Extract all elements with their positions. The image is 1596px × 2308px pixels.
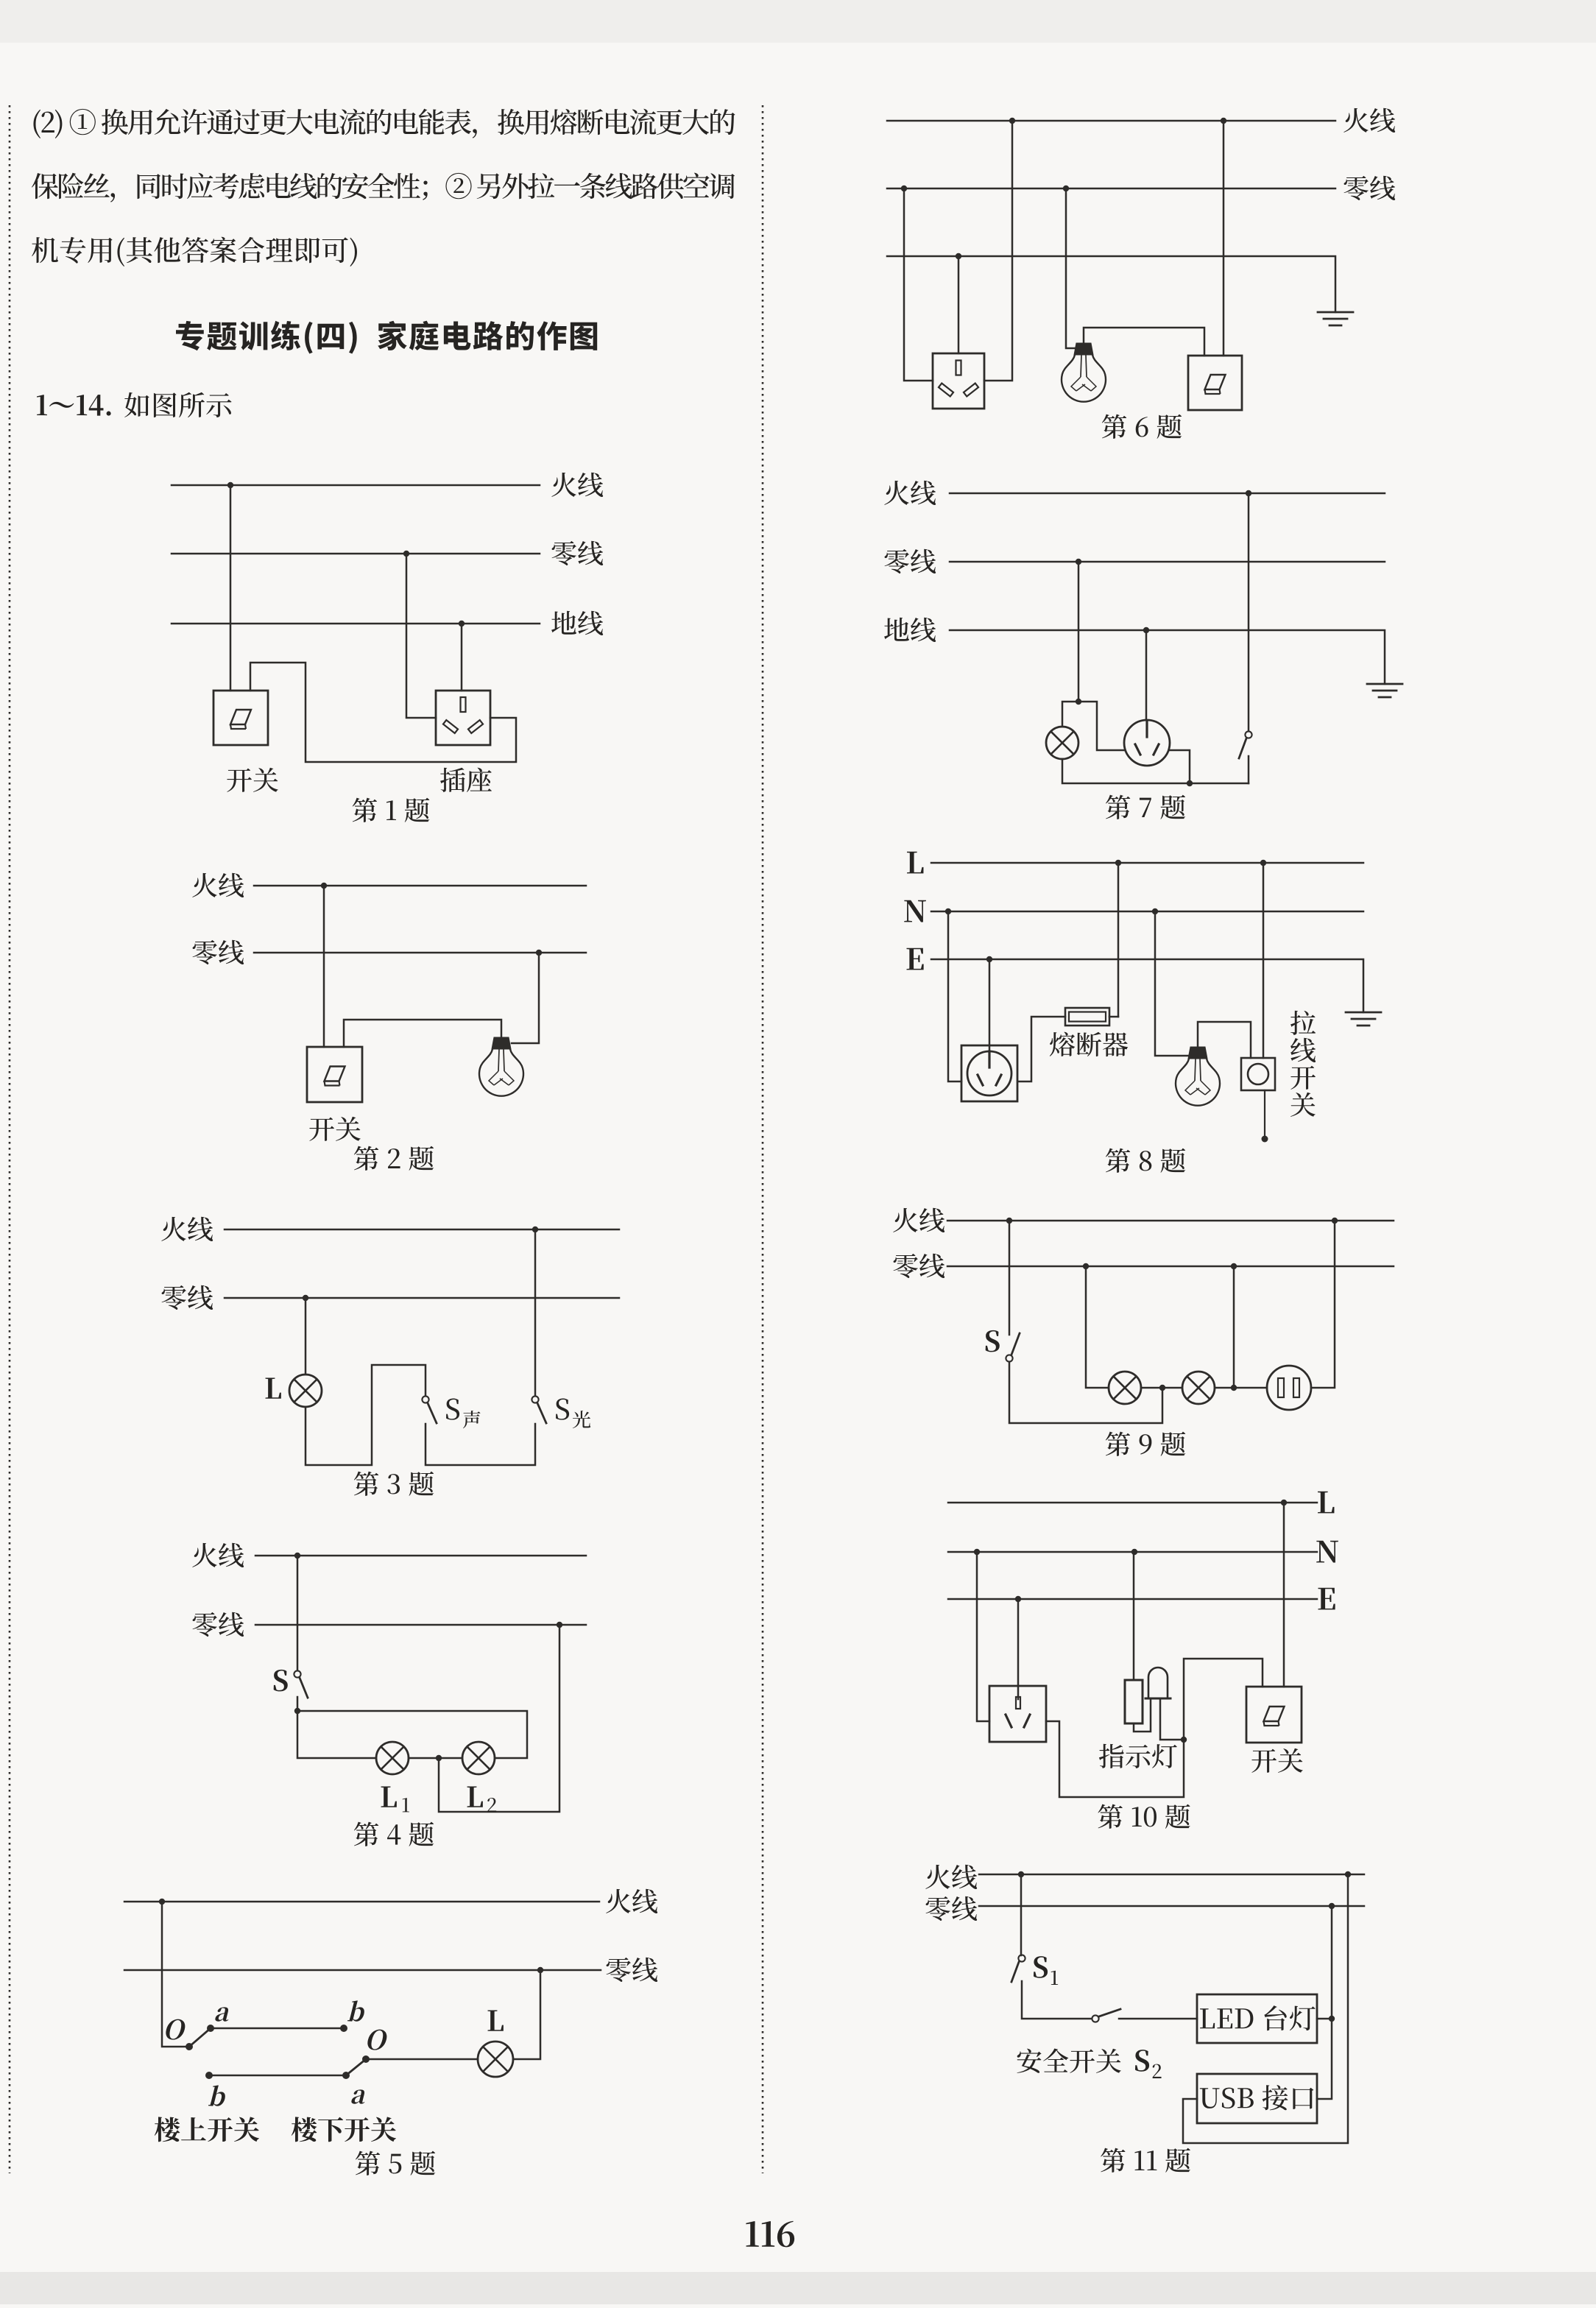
D4 wire live to S <box>297 1556 299 1670</box>
D1 neutral wire 零线 <box>172 553 540 555</box>
D8 node N2 <box>1152 908 1158 914</box>
D4 label S <box>274 1670 288 1692</box>
D9 switch S contact <box>1006 1355 1012 1361</box>
D9 wire L1 to L2 <box>1141 1387 1182 1389</box>
D1 label 插座 <box>440 768 465 792</box>
D6 wire neutral to bulb <box>1066 188 1076 348</box>
D1 switch box 开关 <box>213 691 268 745</box>
D10 node junction <box>1181 1737 1187 1743</box>
D11 caption 第11题 <box>1101 2148 1125 2173</box>
D8 line E <box>931 959 1363 1012</box>
D4 node on neutral <box>557 1622 562 1628</box>
D10 indicator resistor <box>1125 1680 1143 1723</box>
D6 wire live to socket right <box>984 121 1012 381</box>
D5 label 火线 <box>606 1889 630 1913</box>
section heading <box>176 321 204 350</box>
D7 node bottom <box>1187 780 1193 786</box>
D11 label 安全开关S2 <box>1017 2049 1041 2073</box>
D4 switch S contact <box>294 1670 300 1677</box>
D2 caption 第2题 <box>354 1146 378 1171</box>
D11 label LED台灯 <box>1200 2008 1215 2028</box>
D8 label 熔断器 <box>1050 1032 1075 1056</box>
D11 wire neutral down to USB <box>1317 1906 1332 2099</box>
D8 lamp bulb <box>1188 1047 1207 1059</box>
D3 node on neutral <box>303 1295 308 1301</box>
D9 caption 第9题 <box>1106 1432 1130 1456</box>
D9 wire neutral 2 down <box>1233 1266 1235 1388</box>
D1 caption 第1题 <box>353 798 377 822</box>
D10 label E <box>1318 1588 1335 1610</box>
D5 label a bottom <box>350 2089 367 2103</box>
D3 wire neutral to lamp <box>305 1298 307 1374</box>
D2 label 零线 <box>193 940 217 964</box>
D5 label b bottom <box>208 2085 228 2106</box>
D10 wire N to socket left <box>977 1552 989 1721</box>
D4 label 火线 <box>192 1543 216 1567</box>
D3 node on live <box>532 1227 538 1232</box>
D5 wire pivot to lamp <box>366 2058 478 2061</box>
D5 wire b to a bottom row <box>209 2075 346 2077</box>
D5 wire live to upstairs switch <box>162 1902 189 2047</box>
D11 label S1 <box>1034 1956 1048 1978</box>
D7 neutral wire 零线 <box>950 561 1385 563</box>
D8 wire N to bulb <box>1155 911 1190 1056</box>
D5 contact a bottom <box>342 2072 350 2079</box>
D2 label 火线 <box>192 873 216 897</box>
D4 switch S blade <box>300 1678 308 1698</box>
D5 node on live <box>159 1899 165 1905</box>
D3 label 零线 <box>162 1285 186 1310</box>
D5 label L <box>488 2011 504 2031</box>
D6 switch box 开关 <box>1188 356 1242 410</box>
D5 wire lamp to neutral <box>513 1970 540 2059</box>
D9 label 火线 <box>893 1208 917 1232</box>
D9 node neutral 2 <box>1231 1263 1237 1269</box>
D4 label 零线 <box>193 1612 217 1637</box>
D8 caption 第8题 <box>1106 1148 1130 1173</box>
left page dotted rule <box>9 105 11 2173</box>
D6 lamp bulb <box>1074 343 1093 355</box>
D2 neutral wire 零线 <box>254 952 586 954</box>
D10 line L <box>948 1502 1317 1504</box>
D11 node live 1 <box>1018 1871 1024 1877</box>
D5 label O downstairs <box>365 2030 389 2050</box>
D7 plug pins <box>1145 721 1148 737</box>
D8 wire E to socket pin <box>989 959 991 1057</box>
D3 switch S光 contact <box>532 1396 538 1402</box>
D8 label 拉线开关 vertical <box>1290 1011 1316 1035</box>
D8 pull switch box 拉线开关 <box>1241 1058 1275 1090</box>
D8 node N1 <box>945 908 951 914</box>
D1 label 火线 <box>551 473 576 497</box>
D1 earth wire 地线 <box>172 623 540 625</box>
D10 label 指示灯 <box>1099 1744 1124 1768</box>
D5 wire a to b top row <box>211 2028 344 2030</box>
D8 socket box <box>961 1045 1017 1101</box>
D2 switch box 开关 <box>307 1047 362 1102</box>
D6 wire neutral to socket left <box>904 188 933 381</box>
D8 wire bulb to pull switch <box>1198 1022 1251 1058</box>
D7 label 零线 <box>885 549 909 574</box>
D8 node L1 <box>1115 860 1121 866</box>
D11 wire S2 to LED box <box>1119 2018 1197 2020</box>
D10 LED right leg <box>1160 1698 1184 1740</box>
D5 node on neutral <box>537 1967 543 1973</box>
D7 wire lamp bottom <box>1062 759 1249 783</box>
D6 node earth <box>956 253 961 259</box>
D4 lamp L1 <box>376 1742 409 1774</box>
D6 live wire 火线 <box>887 120 1335 122</box>
D7 wire neutral down <box>1078 562 1080 702</box>
D11 switch S2 contact <box>1092 2015 1098 2022</box>
D5 lamp L <box>478 2041 513 2077</box>
D7 label 地线 <box>884 618 909 641</box>
D4 branch wire to L2 right <box>297 1711 527 1758</box>
D8 label L <box>907 852 923 874</box>
D1 label 开关 <box>227 769 252 792</box>
D3 switch S声 contact <box>422 1396 428 1402</box>
D11 node neutral <box>1329 1903 1335 1909</box>
D2 node on live <box>321 883 327 889</box>
D7 wire branch to plug <box>1078 702 1124 750</box>
D4 wire L1 to mid node <box>409 1757 462 1760</box>
D5 label 楼下开关 <box>292 2117 317 2142</box>
D11 label 火线 <box>925 1865 950 1889</box>
D11 neutral wire 零线 <box>979 1905 1364 1908</box>
D5 upstairs blade <box>189 2028 211 2047</box>
D9 node live 1 <box>1006 1218 1012 1224</box>
D3 live wire 火线 <box>225 1229 619 1231</box>
D11 wire USB to live loop <box>1183 1874 1348 2143</box>
D8 line N <box>931 911 1363 913</box>
D9 label S <box>986 1330 1000 1352</box>
D9 node live 2 <box>1332 1218 1338 1224</box>
D11 switch S2 blade <box>1099 2009 1120 2016</box>
D9 live wire 火线 <box>947 1220 1394 1222</box>
D9 switch S blade <box>1011 1333 1020 1355</box>
D8 label E <box>907 948 924 970</box>
D5 contact b top <box>340 2025 347 2032</box>
D6 node live 2 <box>1221 118 1226 124</box>
D1 wire live to switch <box>230 485 232 691</box>
D9 node between lamps <box>1159 1385 1165 1391</box>
D5 label 零线 <box>607 1958 631 1982</box>
D3 label S光 <box>556 1399 569 1420</box>
D6 node live 1 <box>1009 118 1015 124</box>
D1 socket box 插座 <box>436 691 490 745</box>
D1 label 地线 <box>551 611 576 635</box>
D3 label L <box>266 1378 281 1399</box>
D7 label 火线 <box>884 481 908 505</box>
D9 wire socket to live <box>1311 1221 1335 1388</box>
D5 label b top <box>347 2000 367 2021</box>
D3 wire S声 to S光 <box>426 1424 535 1465</box>
D2 wire switch to bulb top <box>344 1020 501 1047</box>
D3 switch S声 blade <box>428 1403 437 1423</box>
D11 wire S1 down to S2 <box>1022 1981 1092 2019</box>
D7 wire bottom to switch <box>1248 756 1250 783</box>
D10 node L <box>1281 1500 1287 1506</box>
D1 live wire 火线 <box>172 484 540 487</box>
D4 wire mid node to neutral <box>439 1625 559 1812</box>
D4 node on live <box>294 1553 300 1559</box>
D4 mid node <box>436 1755 442 1761</box>
D10 line E <box>948 1598 1317 1601</box>
D6 socket box 插座 <box>933 353 984 409</box>
D8 line L <box>931 862 1363 864</box>
D9 lamp L1 <box>1109 1372 1141 1404</box>
D8 node E1 <box>986 956 992 962</box>
D5 caption 第5题 <box>356 2151 380 2175</box>
D10 wire L to switch box <box>1283 1503 1285 1687</box>
D4 node below S <box>294 1708 300 1714</box>
D7 ground symbol <box>1367 683 1402 685</box>
D7 switch blade <box>1239 738 1246 758</box>
D3 neutral wire 零线 <box>225 1297 619 1299</box>
D10 node N2 <box>1131 1549 1137 1555</box>
D5 neutral wire 零线 <box>124 1969 601 1972</box>
D10 socket pin right <box>1024 1715 1030 1727</box>
D7 node on neutral <box>1076 559 1081 565</box>
D6 earth wire 地线 <box>887 256 1335 312</box>
D10 wire socket loop to node <box>1046 1721 1184 1797</box>
D4 wire S to node <box>297 1697 299 1711</box>
D4 label L2 <box>467 1787 483 1807</box>
D11 USB box <box>1197 2074 1317 2123</box>
D3 lamp L <box>289 1374 322 1407</box>
D7 caption 第7题 <box>1106 795 1130 819</box>
D3 wire live to S光 <box>534 1229 537 1396</box>
D2 wire live to switch <box>323 886 325 1047</box>
D9 wire neutral to L1 <box>1086 1266 1109 1388</box>
D8 pull cord <box>1264 1090 1265 1136</box>
D3 label S声 <box>446 1399 459 1420</box>
D10 socket pin top <box>1016 1697 1020 1709</box>
D2 label 开关 <box>309 1118 334 1141</box>
D2 wire neutral to bulb <box>512 953 539 1043</box>
D10 wire junction to switch box <box>1184 1659 1263 1740</box>
D10 socket pin left <box>1006 1715 1011 1727</box>
D9 node before socket <box>1231 1385 1237 1391</box>
D8 pull cord ball <box>1262 1136 1268 1143</box>
D9 wire L2 to socket <box>1215 1387 1267 1389</box>
center column dotted rule <box>762 105 764 2173</box>
D5 contact b bottom <box>205 2072 213 2079</box>
D9 wire live to S <box>1009 1221 1011 1335</box>
D11 switch S1 blade <box>1011 1962 1019 1982</box>
D1 wire neutral to socket left <box>406 554 436 718</box>
D6 ground symbol <box>1318 311 1353 314</box>
D10 wire resistor to LED leg <box>1134 1700 1151 1732</box>
D5 downstairs pivot O node <box>362 2055 370 2063</box>
D11 LED lamp box <box>1197 1994 1317 2043</box>
D7 plug circle <box>1124 720 1170 766</box>
D11 label 零线 <box>926 1896 950 1921</box>
D9 socket slots <box>1278 1378 1284 1397</box>
D1 label 零线 <box>552 541 576 565</box>
D10 line N <box>948 1551 1317 1553</box>
D11 wire LED to neutral drop <box>1317 2018 1332 2020</box>
D10 LED body <box>1148 1668 1168 1698</box>
D7 wire branch to lamp <box>1062 702 1078 727</box>
D5 downstairs blade <box>346 2059 366 2075</box>
D8 pull switch knob <box>1248 1064 1268 1084</box>
D1 wire earth to socket top <box>461 624 463 691</box>
D11 wire live to S1 <box>1020 1874 1023 1955</box>
D6 label 零线 <box>1344 176 1369 200</box>
D1 node on neutral <box>403 551 409 557</box>
D7 wire live to switch <box>1248 493 1250 731</box>
D4 lamp L2 <box>462 1742 495 1774</box>
answer text line 3 <box>32 237 58 263</box>
D7 live wire 火线 <box>950 493 1385 495</box>
D10 label L <box>1318 1492 1334 1514</box>
D8 wire fuse right <box>1109 1016 1118 1018</box>
D11 node at LED right <box>1329 2016 1335 2022</box>
D9 node neutral 1 <box>1083 1263 1089 1269</box>
D8 node L2 <box>1260 860 1266 866</box>
D11 switch S1 contact <box>1018 1955 1025 1961</box>
answer text line 2 <box>32 173 58 199</box>
problem numbers 1-14 <box>37 395 47 415</box>
page number 116 <box>746 2221 758 2247</box>
D5 label O upstairs <box>163 2019 187 2040</box>
D9 wire S down and along bottom <box>1009 1362 1162 1423</box>
D10 socket box <box>989 1686 1046 1742</box>
D5 label a upstairs <box>214 2007 231 2021</box>
D3 switch S光 blade <box>537 1403 546 1423</box>
D7 earth wire 地线 <box>950 630 1385 684</box>
D8 wire fuse left to socket <box>1018 1017 1065 1081</box>
D8 wire L to pull switch <box>1263 863 1265 1058</box>
D4 label L1 <box>381 1787 397 1807</box>
D4 live wire 火线 <box>255 1555 586 1557</box>
D6 wire live to switch box <box>1223 121 1225 356</box>
D5 live wire 火线 <box>124 1901 599 1903</box>
D5 upstairs pivot O node <box>186 2043 193 2050</box>
D7 wire plug to bottom <box>1170 750 1190 783</box>
D11 live wire 火线 <box>979 1874 1364 1876</box>
D4 caption 第4题 <box>354 1822 378 1846</box>
D9 socket circle <box>1267 1366 1311 1410</box>
D10 label N <box>1316 1541 1338 1563</box>
D7 switch contact <box>1245 731 1251 738</box>
D6 wire bulb to switch box <box>1084 328 1204 356</box>
D10 wire E to socket pin <box>1017 1599 1020 1699</box>
D8 wire N to socket left <box>948 911 961 1081</box>
D2 live wire 火线 <box>254 885 586 887</box>
D10 caption 第10题 <box>1098 1804 1122 1829</box>
D8 fuse 熔断器 <box>1065 1008 1109 1026</box>
D11 label USB接口 <box>1200 2088 1220 2108</box>
D3 caption 第3题 <box>354 1472 378 1496</box>
D6 label 火线 <box>1343 108 1368 133</box>
D5 contact a upstairs <box>207 2025 214 2032</box>
D6 node neutral 2 <box>1063 186 1069 191</box>
D5 label 楼上开关 <box>155 2117 180 2142</box>
D1 node on earth <box>459 621 465 627</box>
D6 caption 第6题 <box>1102 414 1126 439</box>
D6 node neutral 1 <box>901 186 907 191</box>
D7 lamp <box>1046 727 1078 759</box>
D7 node on earth <box>1143 627 1149 633</box>
D7 node at branch <box>1076 699 1081 705</box>
D3 label 火线 <box>161 1217 186 1241</box>
D8 label N <box>904 900 926 922</box>
answer text line 1 <box>33 110 40 138</box>
D2 lamp bulb <box>492 1037 511 1049</box>
D9 lamp L2 <box>1182 1372 1215 1404</box>
D9 neutral wire 零线 <box>947 1266 1394 1268</box>
D8 ground symbol <box>1346 1012 1381 1014</box>
D7 wire earth to plug top <box>1145 630 1148 720</box>
D4 neutral wire 零线 <box>255 1624 586 1626</box>
D10 wire N to resistor <box>1133 1552 1135 1680</box>
D10 node E <box>1015 1596 1021 1602</box>
D10 node N1 <box>974 1549 980 1555</box>
D1 wire switch to socket <box>250 663 516 762</box>
D8 socket pins <box>988 1051 990 1067</box>
D1 node on live <box>227 482 233 488</box>
D10 switch box 开关 <box>1246 1687 1302 1743</box>
D9 label 零线 <box>894 1254 918 1278</box>
D11 node live 2 <box>1345 1871 1351 1877</box>
D8 socket circle <box>967 1051 1011 1095</box>
D6 wire earth to socket top <box>958 256 960 353</box>
D6 neutral wire 零线 <box>887 188 1335 190</box>
D7 node on live <box>1246 490 1251 496</box>
D8 wire L to fuse <box>1117 863 1120 1017</box>
D4 wire node down to L1 <box>297 1711 376 1758</box>
D2 node on neutral <box>536 950 542 956</box>
D3 wire lamp to S1 top <box>306 1365 426 1465</box>
D10 label 开关 <box>1251 1749 1277 1773</box>
